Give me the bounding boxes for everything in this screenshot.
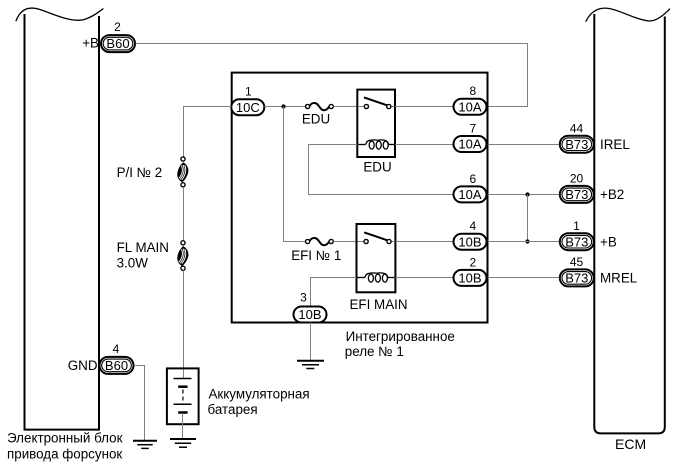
relay block pin 8 (10A) (454, 84, 487, 115)
svg-text:батарея: батарея (208, 402, 258, 417)
wire: 10C to fuse EDU (264, 106, 305, 108)
svg-text:B73: B73 (565, 271, 588, 286)
ground (battery) (170, 439, 196, 447)
wire: pin 3 to ground (310, 323, 312, 360)
label: Аккумуляторная батарея (208, 386, 310, 417)
wire: pin 4 to ECM +B (488, 241, 560, 243)
label: Электронный блок привода форсунок (7, 431, 123, 462)
wire: junction +B2 to junction +B (527, 195, 529, 242)
svg-text:B73: B73 (565, 137, 588, 152)
label: Интегрированное реле № 1 (345, 329, 455, 359)
svg-text:10A: 10A (458, 187, 481, 202)
svg-text:FL MAIN: FL MAIN (117, 240, 169, 255)
wire: P/I No.2 to FL MAIN (183, 187, 185, 241)
wire: FL MAIN to battery (183, 270, 185, 378)
wire: pin 6 to ECM +B2 (488, 194, 560, 196)
injector driver unit block (left) (16, 8, 104, 430)
svg-text:P/I № 2: P/I № 2 (117, 165, 163, 180)
svg-text:8: 8 (469, 84, 476, 98)
wire: relay EDU coil to pin 6 (309, 145, 454, 195)
svg-text:10B: 10B (298, 307, 321, 322)
svg-text:B60: B60 (106, 36, 129, 51)
wire: fuse EDU to relay EDU (333, 106, 357, 108)
label: FL MAIN 3.0W (117, 240, 169, 271)
svg-text:2: 2 (114, 20, 121, 34)
relay block pin 2 (10B) (454, 255, 487, 286)
fusible link P/I No.2 (177, 157, 188, 187)
relay EFI MAIN coil (358, 273, 395, 282)
svg-text:B73: B73 (565, 234, 588, 249)
wire: pin 7 to ECM IREL (488, 144, 560, 146)
svg-text:MREL: MREL (600, 271, 637, 286)
wire: fuse EFI No.1 to relay EFI MAIN (333, 241, 356, 243)
svg-text:1: 1 (573, 219, 580, 233)
svg-text:10B: 10B (458, 271, 481, 286)
junction after 10C (281, 104, 285, 108)
junction +B (525, 239, 529, 243)
wire: relay EDU switch to pin 8 (395, 106, 453, 108)
fuse EDU (306, 103, 334, 110)
relay block pin 6 (10A) (454, 172, 487, 203)
svg-text:44: 44 (570, 121, 584, 135)
wire: GND B60 to ground (134, 366, 145, 441)
svg-text:GND: GND (68, 358, 98, 373)
fuse EFI No.1 (306, 238, 334, 245)
svg-text:20: 20 (570, 172, 584, 186)
relay EFI MAIN (357, 224, 396, 292)
relay block pin 1 (10C) (231, 85, 264, 116)
wire: pin 2 to ECM MREL (488, 277, 560, 279)
battery (167, 368, 199, 424)
wire: 10C to fusible link P/I No.2 (184, 107, 232, 158)
wire: 10C branch down to fuse EFI No.1 (284, 107, 306, 242)
integrated relay No.1 box (232, 73, 488, 323)
svg-text:B60: B60 (105, 358, 128, 373)
svg-text:привода форсунок: привода форсунок (7, 446, 122, 461)
svg-text:10B: 10B (458, 234, 481, 249)
svg-text:+B: +B (82, 35, 99, 50)
relay block pin 3 (10B) (294, 290, 327, 322)
svg-text:ECM: ECM (615, 436, 646, 452)
wire: relay EFI MAIN coil to pin 3 (311, 278, 357, 307)
svg-text:+B: +B (600, 234, 617, 249)
ground (relay pin 3) (297, 361, 324, 369)
wire: relay EFI MAIN coil to pin 2 (395, 277, 453, 279)
connector B73 pin 45 (MREL) (560, 255, 637, 286)
fusible link FL MAIN 3.0W (177, 241, 188, 271)
svg-text:10A: 10A (458, 137, 481, 152)
junction +B2 (525, 192, 529, 196)
svg-text:6: 6 (469, 172, 476, 186)
connector B60 pin 2 (+B) (82, 20, 135, 52)
svg-text:реле № 1: реле № 1 (345, 344, 404, 359)
ground (GND B60) (133, 441, 157, 449)
svg-text:7: 7 (469, 121, 476, 135)
svg-text:4: 4 (469, 219, 476, 233)
svg-text:EFI № 1: EFI № 1 (291, 248, 341, 263)
ECM block (right) (586, 8, 670, 433)
connector B60 pin 4 (GND) (68, 342, 134, 374)
relay EDU coil (358, 140, 394, 149)
svg-text:IREL: IREL (600, 137, 630, 152)
svg-text:Интегрированное: Интегрированное (346, 329, 455, 344)
wire: relay EFI MAIN switch to pin 4 (395, 241, 453, 243)
svg-text:Аккумуляторная: Аккумуляторная (209, 386, 310, 401)
connector B73 pin 44 (IREL) (560, 121, 630, 152)
svg-text:2: 2 (469, 255, 476, 269)
wire: B60 pin2 to relay box pin 8 (136, 44, 528, 107)
svg-text:B73: B73 (565, 187, 588, 202)
svg-text:4: 4 (113, 342, 120, 356)
svg-text:3: 3 (300, 290, 307, 304)
svg-text:+B2: +B2 (600, 187, 624, 202)
relay EDU (357, 90, 395, 157)
connector B73 pin 20 (+B2) (560, 172, 624, 203)
connector B73 pin 1 (+B) (560, 219, 617, 250)
relay block pin 4 (10B) (454, 219, 487, 250)
svg-text:EDU: EDU (363, 160, 391, 175)
svg-text:EFI MAIN: EFI MAIN (350, 297, 408, 312)
svg-text:45: 45 (570, 255, 584, 269)
svg-text:10A: 10A (458, 99, 481, 114)
svg-text:3.0W: 3.0W (117, 256, 149, 271)
svg-text:EDU: EDU (302, 112, 330, 127)
wire: relay EDU coil to pin 7 (395, 144, 453, 146)
wire: battery to ground (182, 413, 184, 439)
relay block pin 7 (10A) (454, 121, 487, 152)
svg-text:Электронный блок: Электронный блок (7, 431, 123, 446)
svg-text:1: 1 (245, 85, 252, 99)
svg-text:10C: 10C (236, 100, 260, 115)
